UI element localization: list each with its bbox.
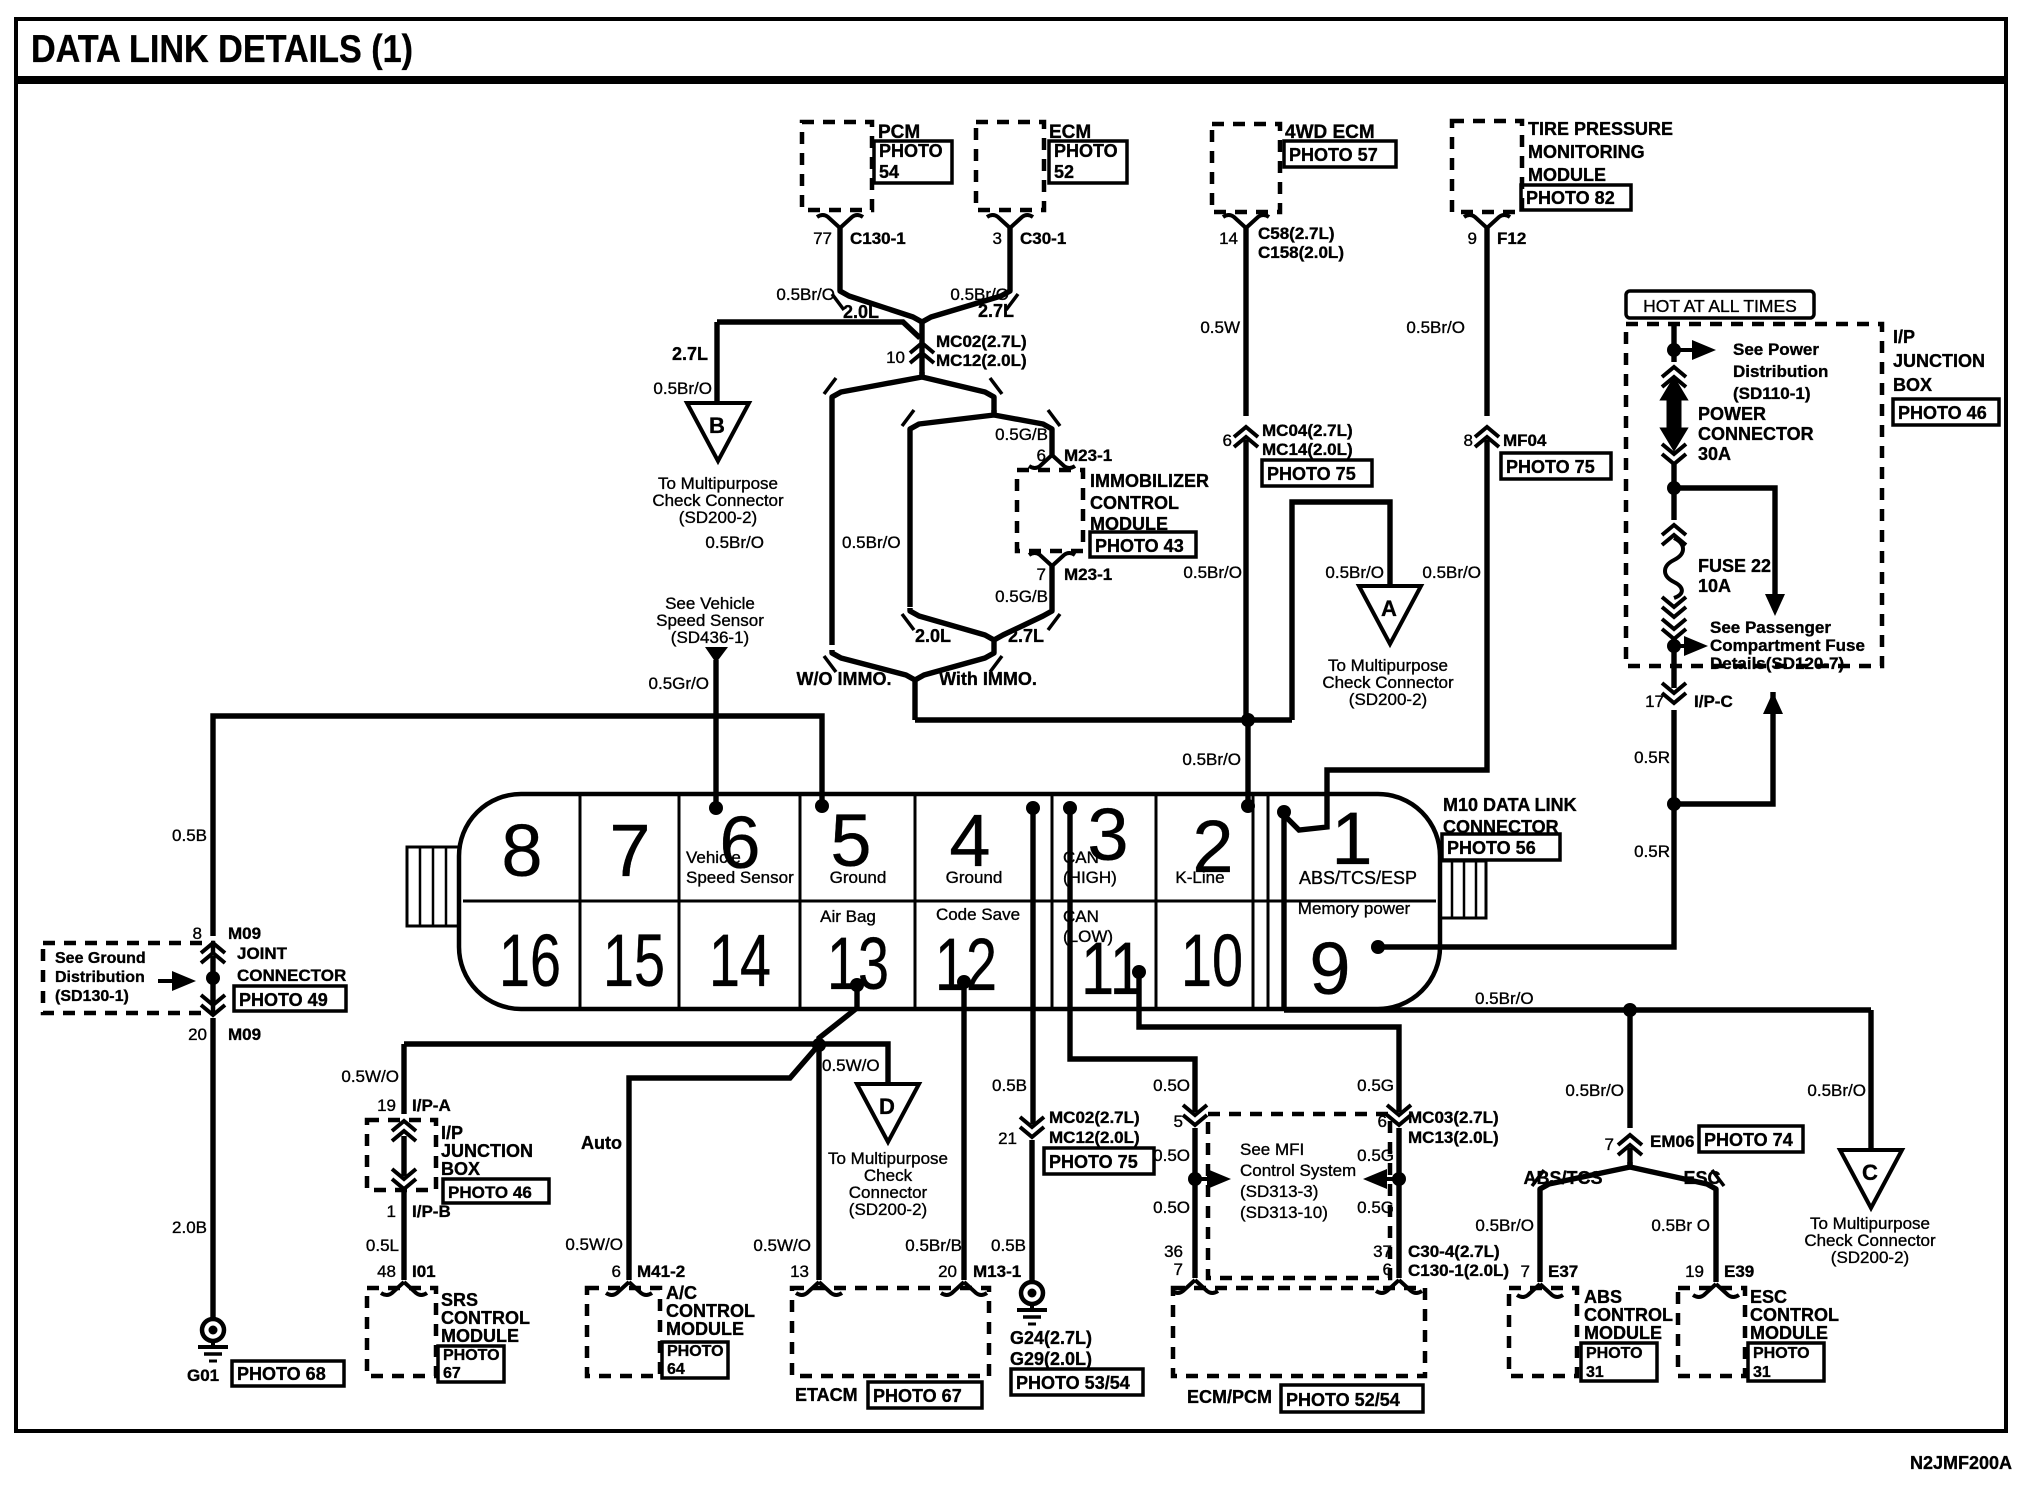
svg-text:37: 37	[1373, 1242, 1392, 1261]
svg-text:0.5Br/O: 0.5Br/O	[1422, 563, 1481, 582]
svg-text:TIRE PRESSURE: TIRE PRESSURE	[1528, 119, 1673, 139]
svg-text:See Ground: See Ground	[55, 950, 146, 967]
svg-text:MC12(2.0L): MC12(2.0L)	[936, 351, 1027, 370]
svg-text:FUSE 22: FUSE 22	[1698, 556, 1771, 576]
svg-text:0.5W: 0.5W	[1200, 318, 1240, 337]
svg-text:0.5G: 0.5G	[1357, 1076, 1394, 1095]
svg-text:ETACM: ETACM	[795, 1385, 858, 1405]
svg-text:10: 10	[1181, 919, 1243, 1002]
svg-text:D: D	[879, 1094, 895, 1119]
svg-text:Compartment Fuse: Compartment Fuse	[1710, 636, 1865, 655]
svg-text:7: 7	[1037, 565, 1046, 584]
svg-text:PHOTO 75: PHOTO 75	[1049, 1152, 1138, 1172]
svg-text:0.5Br/O: 0.5Br/O	[1807, 1081, 1866, 1100]
svg-text:0.5G/B: 0.5G/B	[995, 425, 1048, 444]
svg-text:2.0B: 2.0B	[172, 1218, 207, 1237]
svg-text:20: 20	[188, 1025, 207, 1044]
svg-text:MF04: MF04	[1503, 431, 1547, 450]
svg-text:0.5Br/O: 0.5Br/O	[1475, 1216, 1534, 1235]
svg-text:0.5W/O: 0.5W/O	[753, 1236, 811, 1255]
svg-text:CONTROL: CONTROL	[666, 1301, 755, 1321]
svg-text:(SD110-1): (SD110-1)	[1733, 384, 1810, 403]
svg-text:0.5B: 0.5B	[992, 1076, 1027, 1095]
svg-text:CONTROL: CONTROL	[1584, 1305, 1673, 1325]
svg-text:(SD130-1): (SD130-1)	[55, 988, 129, 1005]
svg-text:13: 13	[790, 1262, 809, 1281]
svg-text:Air Bag: Air Bag	[820, 907, 876, 926]
svg-text:0.5W/O: 0.5W/O	[341, 1067, 399, 1086]
svg-text:PHOTO: PHOTO	[879, 141, 943, 161]
svg-text:14: 14	[709, 919, 771, 1002]
svg-text:2.7L: 2.7L	[1008, 626, 1044, 646]
svg-text:3: 3	[993, 229, 1002, 248]
svg-text:I/P: I/P	[441, 1123, 463, 1143]
svg-text:MODULE: MODULE	[1584, 1323, 1662, 1343]
svg-text:Code Save: Code Save	[936, 905, 1020, 924]
svg-text:2.7L: 2.7L	[978, 301, 1014, 321]
svg-text:N2JMF200A: N2JMF200A	[1910, 1453, 2012, 1473]
svg-text:Distribution: Distribution	[1733, 362, 1828, 381]
svg-text:ESC: ESC	[1750, 1287, 1787, 1307]
svg-text:0.5Br/O: 0.5Br/O	[842, 533, 901, 552]
svg-text:ESC: ESC	[1683, 1168, 1720, 1188]
svg-text:See Power: See Power	[1733, 340, 1819, 359]
svg-text:PHOTO: PHOTO	[1753, 1345, 1810, 1362]
svg-text:I/P-B: I/P-B	[412, 1202, 451, 1221]
svg-text:M09: M09	[228, 924, 261, 943]
svg-text:17: 17	[1645, 692, 1664, 711]
svg-text:0.5Br/O: 0.5Br/O	[1475, 989, 1534, 1008]
svg-text:36: 36	[1164, 1242, 1183, 1261]
svg-text:7: 7	[1174, 1260, 1183, 1279]
svg-text:8: 8	[501, 809, 542, 892]
svg-text:Details(SD120-7): Details(SD120-7)	[1710, 654, 1844, 673]
svg-text:64: 64	[667, 1361, 685, 1378]
svg-text:15: 15	[603, 919, 665, 1002]
svg-text:PHOTO: PHOTO	[443, 1347, 500, 1364]
svg-text:Control System: Control System	[1240, 1161, 1356, 1180]
svg-text:0.5Br/O: 0.5Br/O	[1183, 563, 1242, 582]
svg-text:0.5Br/O: 0.5Br/O	[653, 379, 712, 398]
svg-text:PHOTO: PHOTO	[1054, 141, 1118, 161]
svg-text:0.5O: 0.5O	[1153, 1198, 1190, 1217]
svg-text:CONTROL: CONTROL	[441, 1308, 530, 1328]
svg-text:C: C	[1862, 1160, 1878, 1185]
svg-text:7: 7	[1521, 1262, 1530, 1281]
svg-text:0.5W/O: 0.5W/O	[565, 1235, 623, 1254]
svg-text:JUNCTION: JUNCTION	[1893, 351, 1985, 371]
svg-text:BOX: BOX	[441, 1159, 480, 1179]
svg-text:ABS/TCS/ESP: ABS/TCS/ESP	[1299, 868, 1417, 888]
svg-text:MODULE: MODULE	[1750, 1323, 1828, 1343]
svg-text:6: 6	[1383, 1260, 1392, 1279]
svg-text:16: 16	[499, 919, 561, 1002]
svg-text:PHOTO 46: PHOTO 46	[1898, 403, 1987, 423]
svg-text:EM06: EM06	[1650, 1132, 1694, 1151]
svg-text:MC03(2.7L): MC03(2.7L)	[1408, 1108, 1499, 1127]
svg-text:B: B	[709, 413, 725, 438]
svg-text:(SD313-10): (SD313-10)	[1240, 1203, 1328, 1222]
svg-text:0.5G/B: 0.5G/B	[995, 587, 1048, 606]
svg-text:2.7L: 2.7L	[672, 344, 708, 364]
svg-text:19: 19	[377, 1096, 396, 1115]
svg-text:MC14(2.0L): MC14(2.0L)	[1262, 440, 1353, 459]
svg-text:Speed Sensor: Speed Sensor	[686, 868, 794, 887]
svg-text:0.5W/O: 0.5W/O	[822, 1056, 880, 1075]
svg-text:31: 31	[1753, 1364, 1771, 1381]
svg-text:Memory power: Memory power	[1298, 899, 1411, 918]
svg-text:67: 67	[443, 1365, 461, 1382]
svg-text:JUNCTION: JUNCTION	[441, 1141, 533, 1161]
svg-text:PHOTO 49: PHOTO 49	[239, 990, 328, 1010]
svg-text:5: 5	[1174, 1112, 1183, 1131]
svg-text:M13-1: M13-1	[973, 1262, 1021, 1281]
svg-text:PHOTO 67: PHOTO 67	[873, 1386, 962, 1406]
svg-text:0.5O: 0.5O	[1153, 1076, 1190, 1095]
svg-text:MC12(2.0L): MC12(2.0L)	[1049, 1128, 1140, 1147]
svg-text:8: 8	[1464, 431, 1473, 450]
svg-text:(SD200-2): (SD200-2)	[679, 508, 757, 527]
svg-text:77: 77	[813, 229, 832, 248]
svg-text:14: 14	[1219, 229, 1238, 248]
svg-text:E37: E37	[1548, 1262, 1578, 1281]
svg-text:DATA LINK DETAILS (1): DATA LINK DETAILS (1)	[31, 28, 413, 71]
svg-text:MODULE: MODULE	[441, 1326, 519, 1346]
svg-text:0.5Br O: 0.5Br O	[1651, 1216, 1710, 1235]
svg-text:See Passenger: See Passenger	[1710, 618, 1831, 637]
svg-text:PHOTO 75: PHOTO 75	[1267, 464, 1356, 484]
svg-text:6: 6	[612, 1262, 621, 1281]
svg-text:2.0L: 2.0L	[843, 302, 879, 322]
svg-text:BOX: BOX	[1893, 375, 1932, 395]
svg-text:0.5Gr/O: 0.5Gr/O	[649, 674, 709, 693]
svg-text:0.5R: 0.5R	[1634, 748, 1670, 767]
svg-text:PHOTO 75: PHOTO 75	[1506, 457, 1595, 477]
svg-text:PHOTO 68: PHOTO 68	[237, 1364, 326, 1384]
svg-text:JOINT: JOINT	[237, 944, 288, 963]
svg-text:M10 DATA LINK: M10 DATA LINK	[1443, 795, 1577, 815]
svg-text:0.5Br/O: 0.5Br/O	[1565, 1081, 1624, 1100]
svg-text:CONNECTOR: CONNECTOR	[237, 966, 346, 985]
svg-text:Distribution: Distribution	[55, 969, 145, 986]
svg-text:0.5Br/O: 0.5Br/O	[776, 285, 835, 304]
svg-text:MODULE: MODULE	[666, 1319, 744, 1339]
svg-text:0.5R: 0.5R	[1634, 842, 1670, 861]
svg-text:IMMOBILIZER: IMMOBILIZER	[1090, 471, 1209, 491]
svg-text:6: 6	[1223, 431, 1232, 450]
svg-text:M23-1: M23-1	[1064, 565, 1112, 584]
svg-text:7: 7	[609, 809, 650, 892]
svg-text:CONNECTOR: CONNECTOR	[1698, 424, 1814, 444]
svg-text:PHOTO 52/54: PHOTO 52/54	[1286, 1390, 1400, 1410]
svg-text:8: 8	[193, 924, 202, 943]
svg-text:C58(2.7L): C58(2.7L)	[1258, 224, 1335, 243]
svg-text:ABS/TCS: ABS/TCS	[1523, 1168, 1602, 1188]
svg-text:2.0L: 2.0L	[915, 626, 951, 646]
svg-text:A: A	[1381, 596, 1397, 621]
svg-text:10A: 10A	[1698, 576, 1731, 596]
svg-text:C158(2.0L): C158(2.0L)	[1258, 243, 1344, 262]
svg-text:PHOTO: PHOTO	[1586, 1345, 1643, 1362]
svg-text:Auto: Auto	[581, 1133, 622, 1153]
svg-text:0.5Br/O: 0.5Br/O	[1406, 318, 1465, 337]
svg-text:0.5O: 0.5O	[1153, 1146, 1190, 1165]
svg-text:CONTROL: CONTROL	[1090, 493, 1179, 513]
svg-text:Vehicle: Vehicle	[686, 848, 741, 867]
svg-text:I01: I01	[412, 1262, 436, 1281]
svg-text:HOT AT ALL TIMES: HOT AT ALL TIMES	[1643, 296, 1797, 316]
svg-text:MC13(2.0L): MC13(2.0L)	[1408, 1128, 1499, 1147]
svg-text:6: 6	[1378, 1112, 1387, 1131]
svg-text:(SD313-3): (SD313-3)	[1240, 1182, 1318, 1201]
svg-text:M41-2: M41-2	[637, 1262, 685, 1281]
svg-text:7: 7	[1605, 1135, 1614, 1154]
svg-text:(SD436-1): (SD436-1)	[671, 628, 749, 647]
svg-text:MC02(2.7L): MC02(2.7L)	[936, 332, 1027, 351]
svg-text:Ground: Ground	[830, 868, 887, 887]
svg-text:52: 52	[1054, 162, 1074, 182]
svg-text:1: 1	[387, 1202, 396, 1221]
svg-text:54: 54	[879, 162, 899, 182]
svg-text:9: 9	[1309, 927, 1350, 1010]
svg-text:PHOTO 56: PHOTO 56	[1447, 838, 1536, 858]
svg-text:PHOTO 53/54: PHOTO 53/54	[1016, 1373, 1130, 1393]
svg-text:W/O IMMO.: W/O IMMO.	[797, 669, 892, 689]
svg-text:0.5B: 0.5B	[991, 1236, 1026, 1255]
svg-text:0.5Br/O: 0.5Br/O	[1182, 750, 1241, 769]
svg-text:C130-1: C130-1	[850, 229, 906, 248]
svg-text:9: 9	[1468, 229, 1477, 248]
svg-text:G24(2.7L): G24(2.7L)	[1010, 1328, 1092, 1348]
svg-text:SRS: SRS	[441, 1290, 478, 1310]
svg-text:With IMMO.: With IMMO.	[939, 669, 1037, 689]
svg-text:C30-4(2.7L): C30-4(2.7L)	[1408, 1242, 1500, 1261]
svg-text:31: 31	[1586, 1364, 1604, 1381]
svg-text:I/P-A: I/P-A	[412, 1096, 451, 1115]
svg-text:0.5Br/B: 0.5Br/B	[905, 1236, 962, 1255]
svg-text:G29(2.0L): G29(2.0L)	[1010, 1349, 1092, 1369]
svg-text:G01: G01	[187, 1366, 219, 1385]
svg-text:C30-1: C30-1	[1020, 229, 1066, 248]
svg-text:C130-1(2.0L): C130-1(2.0L)	[1408, 1261, 1509, 1280]
svg-text:PHOTO 43: PHOTO 43	[1095, 536, 1184, 556]
svg-text:(SD200-2): (SD200-2)	[1831, 1248, 1909, 1267]
svg-text:21: 21	[998, 1129, 1017, 1148]
svg-text:0.5Br/O: 0.5Br/O	[1325, 563, 1384, 582]
svg-text:0.5B: 0.5B	[172, 826, 207, 845]
svg-text:A/C: A/C	[666, 1283, 697, 1303]
svg-text:(SD200-2): (SD200-2)	[1349, 690, 1427, 709]
svg-text:POWER: POWER	[1698, 404, 1766, 424]
svg-text:M23-1: M23-1	[1064, 446, 1112, 465]
svg-text:MC02(2.7L): MC02(2.7L)	[1049, 1108, 1140, 1127]
svg-text:F12: F12	[1497, 229, 1526, 248]
svg-text:48: 48	[377, 1262, 396, 1281]
svg-text:PHOTO 82: PHOTO 82	[1526, 188, 1615, 208]
svg-text:PHOTO 57: PHOTO 57	[1289, 145, 1378, 165]
svg-text:MONITORING: MONITORING	[1528, 142, 1645, 162]
svg-text:19: 19	[1685, 1262, 1704, 1281]
svg-text:PHOTO 46: PHOTO 46	[448, 1183, 532, 1202]
svg-text:ECM/PCM: ECM/PCM	[1187, 1387, 1272, 1407]
svg-text:I/P-C: I/P-C	[1694, 692, 1733, 711]
svg-text:0.5G: 0.5G	[1357, 1198, 1394, 1217]
svg-text:Ground: Ground	[946, 868, 1003, 887]
svg-text:MODULE: MODULE	[1528, 165, 1606, 185]
svg-text:PHOTO: PHOTO	[667, 1343, 724, 1360]
svg-text:PHOTO 74: PHOTO 74	[1704, 1130, 1793, 1150]
svg-text:CONTROL: CONTROL	[1750, 1305, 1839, 1325]
svg-text:20: 20	[938, 1262, 957, 1281]
svg-text:E39: E39	[1724, 1262, 1754, 1281]
svg-text:(SD200-2): (SD200-2)	[849, 1200, 927, 1219]
svg-text:0.5G: 0.5G	[1357, 1146, 1394, 1165]
svg-text:0.5Br/O: 0.5Br/O	[705, 533, 764, 552]
svg-text:0.5L: 0.5L	[366, 1236, 399, 1255]
svg-text:ABS: ABS	[1584, 1287, 1622, 1307]
svg-text:30A: 30A	[1698, 444, 1731, 464]
svg-text:See MFI: See MFI	[1240, 1140, 1304, 1159]
svg-text:M09: M09	[228, 1025, 261, 1044]
svg-text:10: 10	[886, 348, 905, 367]
svg-text:K-Line: K-Line	[1175, 868, 1224, 887]
svg-text:I/P: I/P	[1893, 327, 1915, 347]
svg-text:MC04(2.7L): MC04(2.7L)	[1262, 421, 1353, 440]
